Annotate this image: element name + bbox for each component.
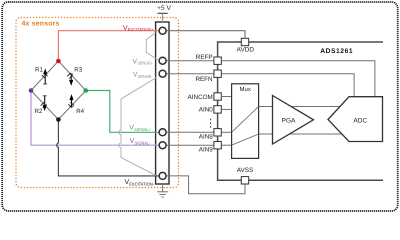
svg-text:PGA: PGA — [282, 117, 296, 124]
svg-text:AINCOM: AINCOM — [188, 94, 213, 101]
wire: excitation- return to AVSS pin — [166, 176, 245, 194]
svg-text:REFP: REFP — [196, 54, 213, 61]
node: bridge top (excitation+) — [56, 59, 61, 64]
connector pin 2 (sense+) — [159, 57, 166, 64]
svg-text:+5 V: +5 V — [157, 5, 171, 12]
op-amp PGA — [273, 96, 314, 145]
pin AIN0 — [214, 106, 221, 113]
svg-text:4x sensors: 4x sensors — [22, 21, 60, 28]
svg-text:R1: R1 — [35, 67, 43, 74]
wire: mux output to PGA and ADC (top rail) — [259, 106, 342, 108]
wire: Vexcitation+ (red) bridge top node to connector pin 1 — [58, 31, 159, 61]
wire: mux stub AINCOM — [221, 96, 231, 98]
ground symbol — [157, 184, 168, 197]
connector pin 4 (signal+) — [159, 129, 166, 136]
resistor R4 (strain gauge, arrow up) — [58, 91, 85, 120]
wire: sense- to REFN pin and on to ADC ref — [166, 74, 354, 97]
pin AIN9 — [214, 142, 221, 149]
wire: signal- to AIN9 pin — [166, 144, 214, 146]
connector pin 1 (excitation+) — [159, 27, 166, 34]
ADS1261 chip boundary — [218, 42, 383, 180]
svg-text:R4: R4 — [76, 108, 84, 115]
svg-text:REFN: REFN — [195, 76, 213, 83]
mux internal route AIN8 to output — [232, 107, 259, 133]
wire: +5V from connector pin1 to AVDD pin — [166, 31, 245, 38]
mux internal route AIN9 to output — [232, 134, 259, 145]
svg-text:AIN8: AIN8 — [199, 134, 213, 141]
pin AVSS — [241, 177, 248, 184]
wire: Vsense- (gray) kelvin tap, hops over signal wires — [119, 78, 157, 176]
mux block — [232, 84, 259, 159]
svg-text:AIN0: AIN0 — [199, 107, 213, 114]
svg-text:Mux: Mux — [240, 86, 251, 93]
wire: mux output to PGA and ADC (bottom rail) — [259, 133, 344, 135]
wire: Vsignal+ (green) bridge right node to connector pin 4 — [86, 91, 160, 133]
pin AIN8 — [214, 129, 221, 136]
wire: mux stub AIN8 — [221, 131, 231, 133]
wire: Vsense+ (gray) kelvin tap at connector to pin 2 — [146, 33, 158, 60]
svg-text:AVSS: AVSS — [237, 167, 254, 174]
svg-text:AIN9: AIN9 — [199, 146, 213, 153]
wire: mux stub AIN9 — [221, 144, 231, 146]
connector pin 5 (signal-) — [159, 142, 166, 149]
connector J1 (6-pin terminal block) — [156, 22, 169, 184]
pin AVDD — [241, 38, 248, 45]
connector pin 6 (excitation-) — [159, 172, 166, 179]
resistor R3 (strain gauge, arrow down) — [58, 61, 85, 91]
sensor region box "4x sensors" — [16, 18, 179, 188]
ellipsis dots between AIN0 and AIN8 — [210, 119, 211, 128]
node: bridge bottom (excitation-) — [56, 117, 61, 122]
svg-text:AVDD: AVDD — [237, 47, 255, 54]
pin REFN — [214, 70, 221, 77]
ADC block — [328, 97, 383, 142]
pin REFP — [214, 57, 221, 64]
svg-text:R2: R2 — [34, 108, 42, 115]
svg-text:ADC: ADC — [353, 117, 367, 124]
resistor R2 (strain gauge, arrow down) — [31, 91, 58, 120]
node: bridge right (signal+) — [84, 88, 89, 93]
svg-text:ADS1261: ADS1261 — [320, 48, 353, 55]
svg-text:R3: R3 — [74, 67, 82, 74]
resistor R1 (strain gauge, arrow up) — [31, 61, 58, 91]
power +5V supply symbol — [157, 5, 171, 22]
wire: Vexcitation- (black) bridge bottom node to connector pin 6, hop over Vsignal- — [57, 120, 160, 176]
wire: sense+ to REFP pin and on to ADC ref — [166, 61, 375, 97]
wire: signal+ to AIN8 pin — [166, 131, 214, 133]
wire: mux stub AIN0 — [221, 108, 231, 110]
pin AINCOM — [214, 93, 221, 100]
wire: Vsignal- (purple) bridge left node to connector pin 5 — [31, 91, 159, 146]
node: bridge left (signal-) — [29, 88, 34, 93]
connector pin 3 (sense-) — [159, 70, 166, 77]
